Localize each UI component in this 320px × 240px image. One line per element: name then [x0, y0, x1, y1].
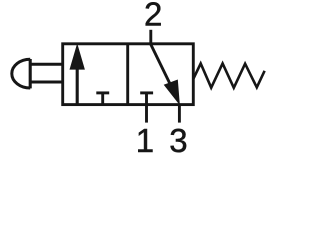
left box flow arrowhead	[70, 43, 85, 69]
right box diagonal arrowhead	[164, 80, 180, 106]
right box blocked port T (port 1 seat)	[140, 93, 153, 105]
valve body (3/2 valve, two position boxes)	[63, 44, 194, 105]
left box blocked port T	[96, 93, 109, 105]
port 3 stub line	[178, 104, 181, 122]
push button lower rod	[32, 81, 64, 84]
svg-text:3: 3	[169, 122, 187, 158]
svg-text:2: 2	[144, 0, 162, 33]
port 1 stub line	[145, 104, 148, 122]
position divider line	[126, 44, 129, 105]
push button plate	[29, 59, 32, 88]
push button cap arc	[12, 59, 30, 88]
left box flow arrow shaft	[76, 68, 79, 104]
right box diagonal flow line 2->3	[151, 44, 173, 90]
svg-text:1: 1	[136, 122, 154, 158]
port 2 stub line	[149, 30, 152, 44]
return spring	[194, 64, 265, 88]
push button upper rod	[32, 63, 64, 66]
